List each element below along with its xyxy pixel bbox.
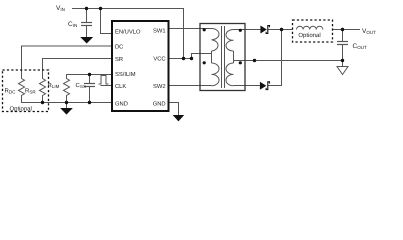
svg-text:CIN: CIN	[68, 21, 77, 28]
svg-text:SW2: SW2	[153, 83, 166, 90]
svg-text:CLK: CLK	[115, 83, 126, 90]
svg-text:GND: GND	[115, 100, 128, 107]
svg-text:CSS: CSS	[76, 82, 86, 89]
svg-text:GND: GND	[153, 100, 166, 107]
svg-text:VOUT: VOUT	[362, 28, 376, 35]
svg-text:RLIM: RLIM	[48, 82, 60, 89]
svg-text:Optional: Optional	[298, 32, 320, 39]
svg-text:Optional: Optional	[10, 105, 32, 112]
svg-text:SW1: SW1	[153, 27, 166, 34]
svg-text:COUT: COUT	[353, 43, 367, 50]
svg-text:SR: SR	[115, 56, 123, 63]
svg-text:EN/UVLO: EN/UVLO	[115, 29, 141, 36]
svg-text:DC: DC	[115, 44, 123, 51]
svg-text:VIN: VIN	[56, 5, 65, 12]
svg-text:RDC: RDC	[5, 88, 17, 95]
svg-text:VCC: VCC	[153, 56, 165, 63]
svg-text:SS/ILIM: SS/ILIM	[115, 71, 136, 78]
svg-text:RSR: RSR	[25, 88, 36, 95]
